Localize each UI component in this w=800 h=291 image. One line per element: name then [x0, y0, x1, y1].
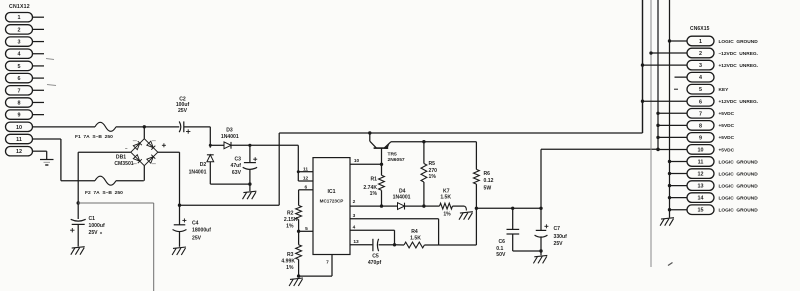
wire R4 to pin3 corner — [424, 244, 438, 246]
svg-text:LOGIC GROUND: LOGIC GROUND — [719, 183, 759, 189]
wire R3 to ground node — [298, 260, 300, 277]
svg-text:11: 11 — [698, 160, 704, 166]
wire corner down to D-node — [209, 127, 211, 145]
junction C6 tap — [511, 207, 514, 210]
riser to output node — [475, 208, 477, 245]
svg-text:C3: C3 — [234, 157, 241, 163]
svg-text:7: 7 — [18, 88, 21, 94]
wire IC pin 6 — [299, 190, 313, 206]
stray speck — [100, 232, 673, 266]
svg-text:1%: 1% — [429, 174, 437, 180]
wire pin10 to fuse F1 — [33, 126, 96, 128]
label pin 2 — [353, 199, 356, 205]
riser +5V — [540, 149, 542, 208]
svg-text:0.12: 0.12 — [484, 178, 494, 184]
wire C5 to node — [379, 244, 395, 246]
junction +5V bus — [656, 148, 659, 151]
svg-text:1000uf: 1000uf — [89, 223, 105, 229]
connector CN6X15 pin 6 — [643, 97, 759, 107]
svg-text:5: 5 — [305, 226, 308, 232]
ground C3 — [243, 184, 257, 199]
svg-text:13: 13 — [353, 239, 359, 245]
junction C3 foot — [248, 182, 251, 185]
node D corner — [209, 144, 252, 147]
svg-text:12: 12 — [303, 176, 309, 182]
bus -12V unreg — [650, 0, 652, 267]
connector CN1X12 pin 12 — [6, 147, 33, 156]
connector CN1X12 pin 3 — [6, 37, 45, 46]
svg-text:4: 4 — [699, 75, 702, 81]
svg-text:LOGIC GROUND: LOGIC GROUND — [719, 159, 759, 165]
wire C6 foot to C7 foot — [513, 250, 540, 252]
label pin 4 — [353, 225, 356, 231]
resistor R2 — [296, 205, 302, 219]
junction ground node — [297, 274, 300, 277]
svg-text:F1 7A S–B 250: F1 7A S–B 250 — [75, 134, 113, 140]
svg-text:+5VDC: +5VDC — [719, 111, 735, 117]
connector CN1X12 pin 5 — [6, 61, 45, 70]
wire IC pin 10 — [350, 163, 382, 165]
svg-text:+5VDC: +5VDC — [719, 147, 735, 153]
wire minus down to C1 node — [77, 152, 79, 203]
svg-text:10: 10 — [354, 158, 360, 164]
wire R7 to ground — [453, 206, 467, 210]
resistor R4 — [404, 242, 424, 248]
svg-text:4.99K: 4.99K — [281, 258, 295, 264]
junction bus pin6 — [641, 100, 644, 103]
svg-text:8: 8 — [699, 123, 702, 129]
label F1 value — [75, 134, 113, 140]
label TR5 — [388, 151, 405, 163]
svg-text:1: 1 — [18, 15, 21, 21]
label R6 — [484, 171, 494, 191]
resistor R1 — [379, 175, 385, 190]
junction R5 top — [422, 140, 425, 143]
wire R5 top lead — [423, 142, 425, 164]
connector CN6X15 pin 11 — [670, 157, 759, 167]
svg-text:+12VDC UNREG.: +12VDC UNREG. — [719, 63, 759, 69]
fuse F1 — [95, 122, 116, 131]
svg-text:KEY: KEY — [719, 87, 730, 93]
connector CN6X15 pin 15 — [670, 205, 759, 215]
junction +5 bus pin7 — [656, 112, 659, 115]
wire R1 to pin2 line — [381, 190, 383, 206]
svg-text:13: 13 — [698, 184, 704, 190]
svg-text:10: 10 — [16, 125, 22, 131]
svg-text:1N4001: 1N4001 — [221, 134, 239, 140]
junction gnd bus pin11 — [668, 160, 671, 163]
svg-text:TR5: TR5 — [388, 151, 398, 157]
rail C4 node to riser — [180, 204, 280, 206]
svg-text:F2 7A S–B 250: F2 7A S–B 250 — [85, 190, 123, 196]
riser +12V to connector bus — [642, 0, 644, 133]
svg-text:2: 2 — [353, 199, 356, 205]
svg-text:1%: 1% — [286, 223, 294, 229]
label pin 12 — [303, 176, 309, 182]
label pin 7 — [326, 260, 329, 266]
wire D3 to C3 top — [231, 144, 250, 146]
junction base-R1 — [380, 163, 383, 166]
bus logic ground — [669, 0, 671, 218]
svg-text:R4: R4 — [411, 229, 418, 235]
label F2 value — [85, 190, 123, 196]
svg-text:LOGIC GROUND: LOGIC GROUND — [719, 39, 759, 45]
svg-text:+5VDC: +5VDC — [719, 135, 735, 141]
capacitor C3 — [231, 145, 258, 184]
svg-text:1N4001: 1N4001 — [189, 169, 207, 175]
wire C3 to IC riser — [250, 144, 298, 146]
svg-text:C1: C1 — [89, 216, 96, 222]
wire IC pin 12 — [298, 180, 313, 182]
capacitor C4 — [173, 205, 212, 247]
label R5 — [429, 161, 438, 180]
ground C1 — [71, 247, 85, 255]
wire IC pin 4 — [350, 229, 395, 231]
wire plus down to rail — [179, 152, 181, 205]
junction gnd bus pin13 — [668, 184, 671, 187]
svg-text:1.5K: 1.5K — [410, 236, 421, 242]
wire pin3 node to output riser — [439, 244, 477, 246]
capacitor C7 — [535, 208, 568, 251]
label pin 10 — [354, 158, 360, 164]
svg-text:1%: 1% — [370, 191, 378, 197]
label pin 5 — [305, 226, 308, 232]
connector CN6X15 pin 5 — [674, 84, 729, 94]
bus +12V unreg — [642, 0, 644, 133]
junction C7 tap — [539, 207, 542, 210]
label DB1 — [114, 154, 133, 167]
wire pin12 to ground — [33, 151, 47, 159]
svg-text:C7: C7 — [554, 226, 561, 232]
stray mark near CN1X12 pin 6 — [47, 85, 56, 86]
wire IC pin 5 — [299, 230, 313, 232]
svg-text:12: 12 — [698, 172, 704, 178]
wire pin11 right — [33, 138, 61, 140]
wire pin11 to fuse F2 — [61, 180, 95, 182]
wire R5 to pin2 line — [423, 182, 425, 206]
junction bus pin2 — [649, 51, 652, 54]
junction bus pin3 — [641, 63, 644, 66]
wire ground node to pin7 — [299, 255, 332, 277]
junction C4 node — [178, 204, 181, 207]
op-amp regulator IC1 MC1723CP — [313, 158, 350, 255]
svg-text:25V: 25V — [89, 230, 99, 236]
svg-text:C6: C6 — [499, 239, 506, 245]
svg-text:9: 9 — [699, 135, 702, 141]
svg-text:25V: 25V — [178, 108, 188, 114]
connector CN6X15 pin 13 — [670, 181, 759, 191]
wire bridge node to C2 — [144, 126, 179, 128]
wire riser down to pin12 — [297, 145, 299, 181]
svg-text:3: 3 — [18, 40, 21, 46]
svg-text:LOGIC GROUND: LOGIC GROUND — [719, 208, 759, 214]
connector CN1X12 label — [9, 4, 30, 10]
wire IC pin 2 — [350, 205, 382, 207]
junction R5 foot — [422, 204, 425, 207]
svg-text:7: 7 — [699, 111, 702, 117]
svg-text:R5: R5 — [429, 161, 436, 167]
connector CN6X15 pin 1 — [670, 36, 759, 46]
fuse F2 — [95, 176, 116, 185]
connector CN6X15 label — [690, 26, 710, 32]
label D3 — [221, 128, 239, 140]
stray mark near CN1X12 pin 4 — [46, 59, 54, 60]
wire pin11 down — [60, 139, 62, 181]
label pin 3 — [353, 213, 356, 219]
svg-text:CN6X15: CN6X15 — [690, 26, 710, 32]
connector CN6X15 pin 8 — [658, 121, 735, 131]
connector CN1X12 pin 9 — [6, 110, 45, 119]
diode D4 — [398, 203, 405, 210]
svg-text:MC1723CP: MC1723CP — [320, 199, 344, 204]
svg-text:25V: 25V — [192, 236, 202, 242]
wire IC pin 13 — [350, 244, 372, 246]
svg-text:2.74K: 2.74K — [363, 185, 377, 191]
earth ground pin12 — [40, 160, 54, 166]
connector CN6X15 pin 7 — [658, 109, 735, 119]
connector CN6X15 pin 12 — [670, 169, 759, 179]
svg-text:270: 270 — [429, 168, 438, 174]
label R1 — [363, 176, 377, 197]
label R7 — [440, 188, 451, 217]
svg-text:12: 12 — [16, 149, 22, 155]
junction pin11 tap — [297, 170, 300, 173]
wire C1 node to down-corner — [78, 202, 154, 204]
wire F2 to bridge bottom — [116, 180, 144, 182]
svg-text:3: 3 — [353, 213, 356, 219]
svg-text:11: 11 — [16, 137, 22, 143]
svg-text:15: 15 — [698, 208, 704, 214]
svg-text:7: 7 — [326, 260, 329, 266]
junction pin13 node — [393, 243, 396, 246]
svg-text:11: 11 — [303, 166, 308, 172]
transistor TR5 — [370, 133, 391, 164]
junction C1 node — [77, 201, 80, 204]
bridge rectifier DB1 — [125, 127, 166, 181]
resistor R3 — [296, 245, 302, 260]
svg-text:25V: 25V — [554, 241, 564, 247]
svg-text:LOGIC GROUND: LOGIC GROUND — [719, 195, 759, 201]
wire bridge plus right — [158, 151, 180, 153]
junction gnd bus pin1 — [668, 39, 671, 42]
svg-text:R3: R3 — [287, 252, 294, 258]
svg-text:D2: D2 — [200, 162, 207, 168]
svg-text:6: 6 — [699, 99, 702, 105]
svg-text:1%: 1% — [286, 265, 294, 271]
wire bridge minus left — [78, 151, 131, 153]
wire R1 foot to D4 — [382, 205, 398, 207]
svg-text:C5: C5 — [372, 254, 379, 260]
svg-text:2N6057: 2N6057 — [388, 157, 405, 163]
svg-text:47uf: 47uf — [231, 163, 242, 169]
junction +5 bus pin8 — [656, 124, 659, 127]
label pin 6 — [304, 184, 307, 190]
svg-text:1N4001: 1N4001 — [393, 194, 411, 200]
wire output line — [476, 207, 541, 209]
svg-text:330uf: 330uf — [554, 234, 568, 240]
connector CN1X12 pin 10 — [6, 122, 33, 131]
svg-text:9: 9 — [18, 113, 21, 119]
capacitor C2 — [176, 96, 191, 133]
junction +5 bus pin9 — [656, 136, 659, 139]
svg-text:2: 2 — [18, 27, 21, 33]
svg-text:470pf: 470pf — [368, 260, 382, 266]
svg-text:14: 14 — [698, 196, 704, 202]
svg-text:R1: R1 — [370, 176, 377, 182]
junction gnd bus pin15 — [668, 208, 671, 211]
riser C4 rail to top rail — [278, 133, 280, 205]
connector CN6X15 pin 14 — [670, 193, 759, 203]
svg-text:5: 5 — [18, 64, 21, 70]
label pin 11 — [303, 166, 308, 172]
connector CN6X15 pin 10 — [658, 145, 735, 155]
wire emitter to R6 — [475, 142, 477, 170]
wire emitter line — [391, 141, 476, 143]
svg-text:4: 4 — [18, 52, 21, 58]
svg-text:+5VDC: +5VDC — [719, 123, 735, 129]
wire IC pin 11 — [298, 171, 313, 173]
wire base to R1 — [381, 164, 383, 175]
svg-text:1.5K: 1.5K — [440, 194, 451, 200]
connector CN1X12 pin 11 — [6, 134, 33, 143]
rail +5V — [541, 148, 658, 150]
capacitor C5 — [368, 239, 382, 266]
resistor R5 — [421, 164, 427, 183]
svg-text:10: 10 — [698, 147, 704, 153]
svg-text:1%: 1% — [443, 212, 451, 218]
label D2 — [189, 162, 207, 175]
diode D3 — [224, 142, 231, 149]
svg-text:8: 8 — [18, 100, 21, 106]
junction gnd bus pin14 — [668, 196, 671, 199]
wire D2 to C3 foot — [210, 183, 250, 185]
label R4 — [410, 229, 421, 242]
label R3 — [281, 252, 295, 271]
junction bridge top node — [143, 125, 146, 128]
connector CN1X12 pin 6 — [6, 73, 45, 82]
svg-text:R6: R6 — [484, 171, 491, 177]
svg-text:2.15K: 2.15K — [284, 217, 298, 223]
wire node to R4 — [395, 244, 405, 246]
svg-text:DB1: DB1 — [116, 154, 126, 160]
svg-text:CM3501: CM3501 — [114, 161, 133, 167]
connector CN1X12 pin 8 — [6, 98, 45, 107]
svg-text:6: 6 — [304, 184, 307, 190]
wire R5 foot to R7 — [424, 205, 440, 207]
wire corner down offpage — [153, 203, 155, 291]
junction C7 ground — [539, 249, 542, 255]
wire C2 to corner — [184, 126, 210, 128]
svg-text:3: 3 — [699, 63, 702, 69]
resistor R6 — [474, 169, 480, 184]
resistor R7 — [440, 203, 453, 209]
svg-text:63V: 63V — [232, 170, 242, 176]
wire IC pin 3 — [350, 218, 439, 220]
junction +5 bus pin10 — [656, 148, 659, 151]
svg-text:2: 2 — [699, 51, 702, 57]
svg-text:6: 6 — [18, 76, 21, 82]
junction output node — [475, 207, 478, 210]
junction gnd bus pin12 — [668, 172, 671, 175]
wire R6 to output node — [475, 184, 477, 208]
connector CN6X15 pin 2 — [651, 48, 758, 58]
svg-text:R2: R2 — [287, 210, 294, 216]
connector CN6X15 pin 3 — [643, 60, 759, 70]
label R2 — [284, 210, 298, 229]
svg-text:5W: 5W — [484, 185, 492, 191]
svg-text:4: 4 — [353, 225, 356, 231]
svg-text:IC1: IC1 — [327, 189, 335, 195]
svg-text:50V: 50V — [496, 252, 506, 258]
svg-text:5: 5 — [699, 87, 702, 93]
connector CN1X12 pin 2 — [6, 25, 45, 34]
ground R3 — [289, 278, 303, 286]
wire pin5 node to R3 — [298, 231, 300, 244]
connector CN1X12 pin 1 — [6, 13, 45, 22]
wire node to D3 — [210, 144, 224, 146]
junction TR5 collector — [368, 131, 371, 134]
ground logic bus — [660, 218, 674, 226]
svg-text:+12VDC UNREG.: +12VDC UNREG. — [719, 99, 759, 105]
label D4 — [393, 188, 411, 200]
wire D4 to R5 foot — [405, 205, 424, 207]
bus +5V — [657, 0, 659, 149]
wire pin3 down — [438, 219, 440, 245]
wire F1 to bridge node — [116, 126, 144, 128]
rail +12V unreg — [279, 132, 642, 134]
capacitor C6 — [496, 208, 519, 258]
connector CN1X12 pin 7 — [6, 86, 45, 95]
capacitor C1 — [70, 203, 105, 247]
ground C6 C7 — [533, 255, 547, 263]
junction R1 foot — [380, 204, 383, 207]
connector CN6X15 pin 4 — [675, 72, 715, 82]
svg-text:1: 1 — [699, 39, 702, 45]
svg-text:D3: D3 — [226, 128, 233, 134]
svg-text:CN1X12: CN1X12 — [9, 4, 30, 10]
wire R2 to pin5 node — [298, 220, 300, 232]
diode D2 — [207, 145, 214, 184]
svg-text:C4: C4 — [192, 221, 199, 227]
wire pin4 down — [394, 230, 396, 245]
ground R7 — [459, 212, 473, 220]
ground C4 — [172, 247, 186, 255]
junction pin5 node — [297, 230, 300, 233]
connector CN1X12 pin 4 — [6, 49, 45, 58]
svg-text:–12VDC UNREG.: –12VDC UNREG. — [719, 51, 758, 57]
connector CN6X15 pin 9 — [658, 133, 735, 143]
svg-text:LOGIC GROUND: LOGIC GROUND — [719, 171, 759, 177]
svg-text:18000uf: 18000uf — [192, 228, 211, 234]
label pin 13 — [353, 239, 359, 245]
